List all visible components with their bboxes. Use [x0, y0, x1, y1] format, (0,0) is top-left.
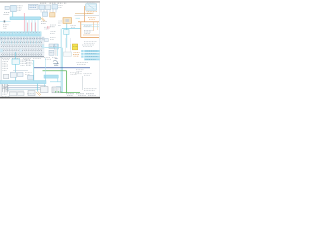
- net label text right2: [84, 30, 93, 33]
- pin wire drops: [2, 41, 40, 45]
- text block mid1b: [44, 27, 49, 29]
- bottom text row left: [2, 94, 34, 97]
- watermark text: [3, 25, 9, 28]
- thin wire: [13, 70, 28, 72]
- harness wire 2: [7, 86, 40, 88]
- node text: [71, 26, 77, 28]
- terminal block T1: [4, 74, 9, 79]
- teal trunk wire: [61, 29, 62, 93]
- harness wire 3: [7, 88, 43, 90]
- module shell sides: [65, 38, 70, 52]
- gray wire horizontal: [75, 15, 100, 17]
- module box: [28, 75, 34, 79]
- text block mid2: [50, 25, 56, 39]
- gray drop wire: [82, 76, 84, 90]
- pin specks: [50, 46, 58, 52]
- lamp symbol splice cluster: [53, 58, 59, 65]
- small box right of grid: [45, 38, 49, 41]
- connector row top-center: [39, 5, 63, 10]
- legend table cyan rows: [81, 50, 100, 60]
- connector pair lower-left: [10, 72, 23, 77]
- wire cyan riser: [44, 58, 46, 75]
- wire: [12, 12, 14, 17]
- net label text right: [84, 25, 92, 27]
- cyan wire mid: [44, 47, 61, 49]
- dark rule under grid: [0, 56, 44, 58]
- orange wire B vertical: [80, 22, 82, 38]
- harness wire 4: [7, 90, 24, 92]
- green wire vertical: [66, 71, 68, 93]
- cyan vertical from C2: [56, 44, 58, 56]
- pin row cyan cells: [0, 32, 41, 36]
- connector C101 top-left: [4, 5, 23, 14]
- wire orange faint lateral: [83, 34, 99, 36]
- junction box grid: [0, 32, 44, 57]
- cyan wire link: [50, 81, 61, 83]
- bottom frame bar: [0, 97, 100, 99]
- teal wire vertical mid-left: [33, 60, 35, 81]
- in-line connector: [41, 18, 46, 22]
- cyan wire bottom-mid: [56, 86, 61, 88]
- pin row lower accent: [0, 34, 41, 36]
- in-line connector tan: [36, 92, 41, 96]
- wire cyan right lateral: [83, 26, 99, 28]
- pink wires: [24, 13, 35, 32]
- lower grid wash: [0, 41, 44, 57]
- left column text rows: [3, 62, 9, 71]
- bus A drop: [57, 78, 59, 82]
- wire cyan stub left: [0, 21, 11, 23]
- top frame bar: [0, 1, 100, 2]
- green stubs: [56, 91, 59, 93]
- text block right low: [84, 89, 97, 91]
- green label text: [55, 90, 62, 92]
- title text: [40, 2, 67, 4]
- left border: [0, 54, 2, 97]
- bus B drop: [44, 84, 46, 87]
- stub blue: [50, 13, 51, 16]
- wire cyan right upper: [81, 24, 99, 26]
- cyan wire left vertical: [15, 52, 17, 81]
- pink jumper: [48, 26, 50, 29]
- cyan bus A: [44, 75, 58, 78]
- text under main wire: [76, 70, 84, 72]
- tan wire horizontal: [75, 13, 93, 15]
- relay K2 tan: [50, 13, 55, 17]
- text right of buses: [70, 73, 82, 75]
- splice S1: [4, 20, 5, 22]
- bottom text row right: [66, 94, 96, 96]
- lower grid lattice: [0, 44, 44, 52]
- green wire bottom: [54, 92, 80, 94]
- orange label text: [87, 12, 98, 14]
- bus link: [44, 76, 46, 81]
- orange stub right: [97, 22, 99, 30]
- wire cyan down: [66, 23, 68, 47]
- cyan bus B: [0, 81, 46, 84]
- power dist connector (tan): [63, 18, 72, 24]
- text right of R3: [21, 60, 28, 65]
- diode module: [64, 30, 69, 35]
- wire drops: [41, 9, 56, 13]
- ground G301 hatch: [2, 84, 9, 92]
- orange label text 2: [88, 18, 96, 20]
- grid footer text: [2, 58, 41, 60]
- teal drop bottom-mid: [37, 84, 39, 92]
- fuse F1 yellow: [72, 44, 78, 50]
- orange wire B horizontal: [81, 37, 99, 39]
- header row cells: [0, 37, 44, 41]
- wire cyan fuse feed: [70, 44, 72, 50]
- top right connector block: [86, 2, 97, 10]
- green wire: [43, 70, 67, 72]
- text above module: [26, 61, 33, 66]
- grid text rows: [1, 43, 43, 55]
- terminal boxes bottom-left: [3, 92, 25, 96]
- cyan stub: [76, 17, 81, 19]
- module shell faint: [64, 52, 72, 56]
- connector boxes bottom-mid: [28, 87, 48, 96]
- text under: [44, 58, 57, 60]
- ignition switch block: [29, 4, 39, 9]
- relay K1: [43, 12, 48, 16]
- orange wire A: [78, 21, 99, 23]
- text block mid: [41, 22, 47, 24]
- cyan bus bar: [10, 17, 41, 20]
- dark blue wire main: [34, 67, 90, 69]
- text small right3: [82, 42, 97, 47]
- wire drops from bus: [26, 20, 38, 32]
- text above dark wire: [77, 63, 89, 65]
- text mid-low: [25, 73, 32, 75]
- module box bottom: [52, 87, 61, 93]
- harness wire 1: [7, 84, 46, 86]
- orange wire vertical: [83, 6, 85, 22]
- right border: [98, 3, 100, 97]
- cyan accents in grid: [0, 49, 2, 52]
- orange text rows under fuse: [73, 53, 80, 57]
- text left of tan box: [58, 21, 62, 26]
- relay R3 cyan box: [12, 59, 19, 64]
- wire orange right stub: [93, 22, 95, 31]
- label text: [84, 74, 93, 76]
- connector block mid: [49, 44, 58, 55]
- wire cyan branch: [62, 28, 81, 30]
